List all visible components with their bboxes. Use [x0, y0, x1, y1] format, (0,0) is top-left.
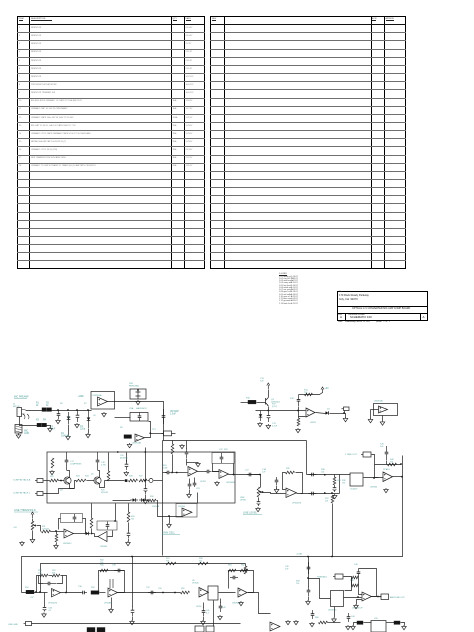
ground under C23b	[127, 541, 129, 542]
wire R2 to U1 input	[52, 410, 92, 412]
voltage reference VR1 element	[136, 389, 141, 399]
wire C29 node	[386, 461, 388, 465]
wire R51 R52 join	[49, 575, 53, 577]
wire bus W1	[22, 456, 403, 593]
wire stub x145 up	[145, 448, 147, 453]
op-amp U6 threshold	[64, 529, 74, 538]
wire to TP2	[148, 480, 150, 482]
svg-text:C22: C22	[219, 449, 224, 451]
analog switch U6B box	[350, 473, 363, 486]
wire Q4 emitter	[70, 484, 75, 489]
svg-text:R62: R62	[241, 565, 246, 567]
svg-text:75k: 75k	[296, 583, 299, 585]
capacitor C37	[148, 592, 151, 594]
svg-text:0.1: 0.1	[49, 610, 53, 612]
wire mic input to R1	[26, 410, 43, 412]
junction U2 out	[149, 432, 151, 434]
wire C20 drop	[126, 453, 128, 463]
ground under U5B	[216, 481, 218, 482]
wire U2 output to TP1	[151, 433, 164, 435]
svg-text:C37: C37	[146, 587, 151, 589]
junction U7 in b	[35, 591, 37, 593]
wire U13 in right	[108, 531, 113, 537]
resistor R61	[228, 569, 236, 572]
svg-text:75k: 75k	[166, 561, 169, 563]
svg-text:LF353C: LF353C	[192, 583, 200, 585]
wire D3 onward	[330, 413, 345, 415]
capacitor C23c	[194, 481, 196, 483]
junction det emitter	[267, 410, 269, 412]
op-amp U14 cut	[270, 622, 280, 631]
ground under U5D 2	[382, 421, 384, 422]
wire R55 to U8	[100, 592, 106, 594]
op-amp U5D	[379, 406, 388, 413]
wire Q3 collector up	[268, 390, 270, 398]
junction U11 out	[357, 596, 359, 598]
resistor R33	[90, 518, 93, 528]
junction U7 in a	[39, 591, 41, 593]
op-amp U13 rectifier	[98, 532, 107, 542]
wire TP1 stub	[172, 433, 176, 435]
ground under U11	[333, 618, 335, 619]
resistor R62	[240, 569, 248, 572]
wire U8 feedback	[99, 571, 125, 593]
wire U3 to U5b	[198, 471, 206, 473]
capacitor C29	[386, 446, 388, 452]
wire U12 gnd stub	[357, 600, 362, 605]
resistor R44 w2 end	[244, 566, 247, 574]
wire fb to U5 minus	[283, 473, 286, 490]
svg-text:R56: R56	[100, 565, 105, 567]
wire cap chain x186	[186, 441, 188, 449]
junction at x332	[331, 492, 333, 494]
svg-text:HACKBOX: HACKBOX	[136, 407, 147, 410]
wire C14 to bus	[298, 407, 300, 411]
svg-text:1N4148: 1N4148	[61, 436, 70, 438]
op-amp U8 filter B	[108, 588, 118, 597]
ground under D1	[67, 435, 69, 436]
ground top left of W1	[21, 541, 23, 542]
potentiometer R30 threshold	[31, 521, 34, 530]
svg-text:75k: 75k	[304, 392, 307, 394]
capacitor C22b U13 feedback	[107, 522, 109, 525]
wire U15 right pin	[387, 622, 395, 624]
resistor R5	[124, 435, 132, 439]
wire R24b to input bus	[172, 455, 174, 473]
ground under D2	[259, 422, 261, 423]
svg-text:(NORM): (NORM)	[120, 458, 128, 460]
svg-text:30k: 30k	[52, 573, 55, 575]
junction node mic3	[76, 409, 78, 411]
svg-text:220p: 220p	[80, 429, 86, 431]
junction VR1 top	[137, 389, 139, 391]
capacitor C31	[308, 586, 310, 590]
resistor R63	[357, 621, 363, 624]
svg-text:U15: U15	[374, 618, 379, 620]
wire U3B up link	[197, 493, 199, 504]
enclosure B2 top edge	[163, 440, 307, 442]
wire cap to U5b	[212, 471, 220, 473]
wire C33 left	[39, 576, 43, 584]
svg-text:TP1: TP1	[152, 429, 157, 431]
connector J8 treb adj	[335, 574, 343, 579]
wire U5 out bus	[301, 493, 340, 495]
svg-text:R29: R29	[224, 449, 229, 451]
junction U8 out a	[162, 592, 164, 594]
ground under U3B input	[168, 523, 170, 524]
junction x145	[144, 451, 146, 453]
wire x128 from B1 bottom	[128, 504, 130, 513]
op-amp U1 enclosure box	[91, 392, 115, 410]
resistor R25	[107, 471, 110, 481]
junction W1 x132	[131, 556, 133, 558]
wire R16 out to Q3	[257, 402, 266, 404]
wire R32b top	[56, 532, 58, 535]
ground under C44	[347, 625, 349, 626]
ground under C20	[125, 471, 127, 472]
wire U15 left pin	[364, 622, 372, 624]
capacitor C23b	[128, 530, 130, 533]
svg-text:R34: R34	[150, 496, 153, 498]
wire C31 gnd link	[308, 597, 310, 601]
junction W1 x332	[331, 556, 333, 558]
svg-text:C36: C36	[78, 586, 83, 588]
wire C2A gnd link	[276, 486, 278, 489]
op-amp U7 filter A	[52, 589, 61, 597]
wire C23b gnd link	[128, 539, 130, 542]
ground under C2A	[276, 488, 278, 489]
wire A line out bus	[307, 474, 351, 476]
op-amp U12 output amp	[362, 592, 372, 601]
ic U15 cut box	[371, 621, 386, 632]
svg-text:LM2904D: LM2904D	[374, 401, 384, 403]
svg-text:R24: R24	[85, 476, 90, 478]
junction U5B fb	[233, 474, 235, 476]
capacitor C19c input	[165, 472, 167, 474]
svg-text:LEVEL: LEVEL	[240, 500, 247, 502]
svg-text:C23: C23	[196, 488, 201, 490]
wire attack bus segment	[105, 480, 125, 482]
wire R23 to Q5	[87, 480, 95, 482]
op-amp U3 vca	[188, 467, 198, 477]
svg-text:R18: R18	[290, 398, 295, 400]
resistor R46	[352, 584, 359, 587]
wire B1 top inner	[47, 452, 49, 454]
wire R31 to U6	[51, 531, 64, 533]
diode D3	[325, 412, 329, 414]
transistor Q5	[94, 477, 101, 484]
svg-text:LF353/LM: LF353/LM	[48, 603, 57, 605]
wire J8 to U11	[344, 577, 352, 591]
resistor R16	[248, 400, 256, 404]
jack switch contacts	[23, 414, 29, 419]
wire U7B out to V1	[393, 476, 403, 478]
ground under C42	[219, 615, 221, 616]
junction U8 out b	[174, 592, 176, 594]
junction node mic2	[67, 409, 69, 411]
capacitor C13	[268, 411, 270, 416]
svg-text:R5: R5	[120, 427, 124, 429]
svg-text:1.0uF: 1.0uF	[170, 414, 176, 416]
svg-text:LF353B: LF353B	[104, 603, 112, 605]
ground left of U15	[352, 625, 354, 626]
svg-text:Q4: Q4	[60, 490, 63, 492]
wire U11 bottom drop	[334, 607, 336, 618]
wire U1 output	[108, 402, 164, 441]
resistor R37	[331, 495, 334, 503]
wire C41 gnd link	[203, 617, 205, 621]
wire fb left drop	[213, 464, 220, 472]
svg-text:LM2904C: LM2904C	[63, 543, 72, 545]
power +9V flag	[322, 389, 324, 393]
wire B1 to U13 net	[115, 504, 117, 522]
wire U9 out	[219, 592, 236, 594]
junction U6 in	[55, 530, 57, 532]
svg-text:R22: R22	[50, 476, 55, 478]
wire R18 top rail	[299, 394, 313, 396]
connector J10 line gnd	[26, 622, 32, 626]
enclosure B2 right edge	[306, 441, 308, 475]
svg-text:2.0k: 2.0k	[38, 573, 42, 575]
junction input bus x172	[171, 472, 173, 474]
svg-text:R3: R3	[36, 420, 40, 422]
svg-text:3R1-0R: 3R1-0R	[101, 492, 108, 494]
ground under C41	[202, 620, 204, 621]
capacitor C1	[58, 410, 60, 414]
wire U6 out	[74, 533, 85, 535]
test point TP1 connector	[164, 431, 172, 436]
op-amp U4 comparator	[306, 408, 315, 417]
capacitor C44	[348, 613, 350, 617]
transistor Q4	[64, 477, 71, 484]
wire U5D bottom stub	[382, 416, 384, 421]
feedback box around U5B	[212, 453, 234, 464]
junction wire A	[324, 474, 326, 476]
svg-text:(C17): (C17)	[272, 406, 277, 408]
connector J2 mic ground lug	[15, 425, 22, 434]
resistor R31	[42, 530, 51, 533]
wire U2 feedback	[145, 422, 151, 438]
wire W2 end drop	[245, 564, 247, 567]
resistor R55	[91, 591, 99, 595]
wire bus W2	[41, 564, 246, 593]
svg-text:LM2904/D: LM2904/D	[232, 603, 242, 605]
wire U6B to U7B	[364, 477, 384, 479]
wire C40 drop	[359, 578, 363, 595]
svg-text:1uF: 1uF	[262, 472, 266, 474]
wire U7 out	[61, 592, 81, 594]
capacitor C22 feedback	[221, 453, 223, 457]
connector J5 comp attack A	[37, 479, 43, 483]
wire A drop	[334, 475, 336, 478]
voltage reference VR1 box	[130, 389, 146, 399]
resistor R23	[76, 479, 86, 482]
wire x145 down	[145, 453, 147, 486]
junction U3B in	[168, 515, 170, 517]
capacitor C27b out	[247, 474, 249, 476]
wire bus to U4 lower input	[299, 411, 306, 417]
ground under U8	[110, 608, 112, 609]
svg-text:LM13700: LM13700	[328, 610, 337, 612]
resistor R64	[394, 621, 400, 624]
wire pot wiper to R31	[37, 526, 41, 532]
svg-text:LP ADJ: LP ADJ	[383, 468, 390, 471]
wire U6 fb right	[83, 519, 86, 534]
resistor R1	[42, 408, 47, 412]
wire U10 out	[248, 593, 271, 614]
svg-text:0.1uF: 0.1uF	[272, 426, 278, 428]
diode D7	[139, 499, 147, 501]
svg-text:R59: R59	[181, 588, 184, 590]
op-amp U3B gain cell	[182, 508, 192, 517]
svg-text:D3: D3	[327, 409, 330, 411]
svg-text:4.7M: 4.7M	[101, 465, 106, 467]
resistor R34	[148, 499, 156, 502]
junction U6B out	[373, 477, 375, 479]
capacitor C24c	[186, 448, 188, 452]
wire input bus to U3	[172, 472, 188, 474]
ground under J2	[18, 434, 20, 435]
wire C21 gnd link	[145, 495, 147, 500]
junction after C27	[324, 492, 326, 494]
capacitor C41	[203, 607, 205, 611]
resistor R24b	[171, 444, 174, 454]
ground at J3	[345, 417, 347, 418]
ground under U12	[355, 604, 357, 605]
ground under R21	[51, 470, 53, 471]
svg-text:LM2904: LM2904	[100, 546, 108, 548]
component K1 cut box	[87, 628, 95, 632]
wire J5 to R22	[44, 480, 50, 482]
ground under R36	[257, 507, 259, 508]
svg-text:R35: R35	[286, 468, 291, 470]
capacitor C2	[77, 410, 79, 415]
resistor R21	[51, 458, 54, 468]
junction line level top	[259, 474, 261, 476]
svg-text:R4: R4	[43, 420, 47, 422]
ground under VR1	[137, 400, 139, 401]
wire U5D input stub	[371, 409, 379, 411]
svg-text:1uF: 1uF	[260, 381, 264, 383]
svg-text:75k: 75k	[131, 519, 134, 521]
junction node mic1	[57, 409, 59, 411]
svg-text:LF353: LF353	[196, 606, 201, 608]
wire clip bus	[113, 500, 131, 502]
wire branch gnd x198	[187, 462, 199, 464]
resistor R56	[100, 569, 108, 572]
ground under U2	[129, 443, 131, 444]
capacitor C40 fb	[358, 569, 360, 572]
wire U5B out bus	[229, 474, 261, 476]
svg-text:C5A: C5A	[129, 407, 134, 410]
wire pot R36 bottom	[258, 498, 260, 500]
svg-text:COMP ATTACK L: COMP ATTACK L	[13, 492, 31, 495]
resistor R34b	[127, 512, 130, 522]
junction wiper	[262, 491, 264, 493]
wire R18 lower link	[298, 417, 300, 419]
ground under C45	[311, 622, 313, 623]
svg-text:2k: 2k	[36, 405, 39, 407]
capacitor C38 u8	[114, 570, 118, 572]
resistor R58 on W2	[198, 562, 208, 565]
capacitor C5 enclosure box	[130, 413, 148, 422]
junction U7 out	[65, 592, 67, 594]
svg-text:R27: R27	[139, 476, 144, 478]
diode D5	[84, 533, 90, 535]
wire TP2 to B2 edge	[154, 480, 163, 482]
op-amp U8 input rails	[110, 579, 113, 588]
junction U7B out	[401, 476, 403, 478]
svg-text:C38: C38	[112, 565, 117, 567]
enclosure B2 left edge	[162, 441, 164, 556]
wire C33 right	[57, 576, 63, 584]
junction U13 in	[114, 520, 116, 522]
enclosure box B1 attack section	[47, 452, 235, 503]
wire lp bus	[375, 464, 402, 466]
wire J3 drop	[344, 411, 346, 414]
svg-text:R54: R54	[25, 587, 28, 589]
wire U12 feedback	[359, 569, 377, 597]
resistor R18 lower	[297, 418, 300, 426]
svg-text:LM2904/OP: LM2904/OP	[352, 608, 363, 610]
svg-text:75k: 75k	[342, 483, 345, 485]
junction treb node	[307, 577, 309, 579]
wire Q3 emitter to bus	[268, 407, 270, 411]
capacitor C21b U6 feedback	[74, 514, 76, 517]
svg-text:R55: R55	[91, 587, 96, 589]
svg-text:C4: C4	[68, 417, 71, 419]
wire pot bottom	[32, 531, 34, 539]
svg-text:C6: C6	[93, 415, 96, 417]
svg-text:C44: C44	[351, 616, 356, 618]
wire Q5 emitter down	[100, 481, 105, 488]
svg-text:C42: C42	[222, 607, 227, 609]
ground under R18	[297, 428, 299, 429]
svg-text:R16: R16	[246, 398, 251, 400]
wire U9 drop	[203, 603, 205, 608]
svg-text:10k: 10k	[325, 501, 328, 503]
wire up x339	[339, 475, 341, 494]
wire Q4 collector	[67, 471, 70, 478]
capacitor C33 feedback	[42, 583, 48, 585]
connector J9 amp line out	[381, 594, 389, 600]
svg-text:Q5: Q5	[91, 474, 94, 476]
resistor R52	[52, 574, 60, 577]
junction U12 out	[377, 596, 379, 598]
svg-text:TREB ADJ: TREB ADJ	[317, 576, 327, 579]
svg-text:AMP/LINE OUT: AMP/LINE OUT	[390, 596, 405, 599]
wire Q5 collector	[98, 471, 100, 478]
op-amp U5 line amp	[286, 488, 297, 498]
wire wiper to U5	[262, 493, 286, 494]
component K4 cut box	[206, 626, 214, 632]
wire J6 into box	[44, 489, 75, 494]
wire U8 under drop	[111, 598, 113, 609]
svg-text:75k: 75k	[199, 561, 202, 563]
ground under U7B	[385, 488, 387, 489]
capacitor C28	[309, 474, 312, 476]
connector J6 comp attack L	[37, 492, 43, 496]
ground under D1B	[87, 433, 89, 434]
wire D5 to junction	[91, 533, 95, 535]
capacitor C21	[145, 485, 147, 489]
wire U8 out	[118, 592, 181, 594]
wire cap chain down	[186, 459, 188, 466]
svg-text:1uF: 1uF	[285, 569, 289, 571]
svg-text:75k: 75k	[390, 462, 393, 464]
svg-text:1 LINE OUT: 1 LINE OUT	[345, 454, 358, 456]
svg-text:LF353: LF353	[200, 481, 207, 483]
